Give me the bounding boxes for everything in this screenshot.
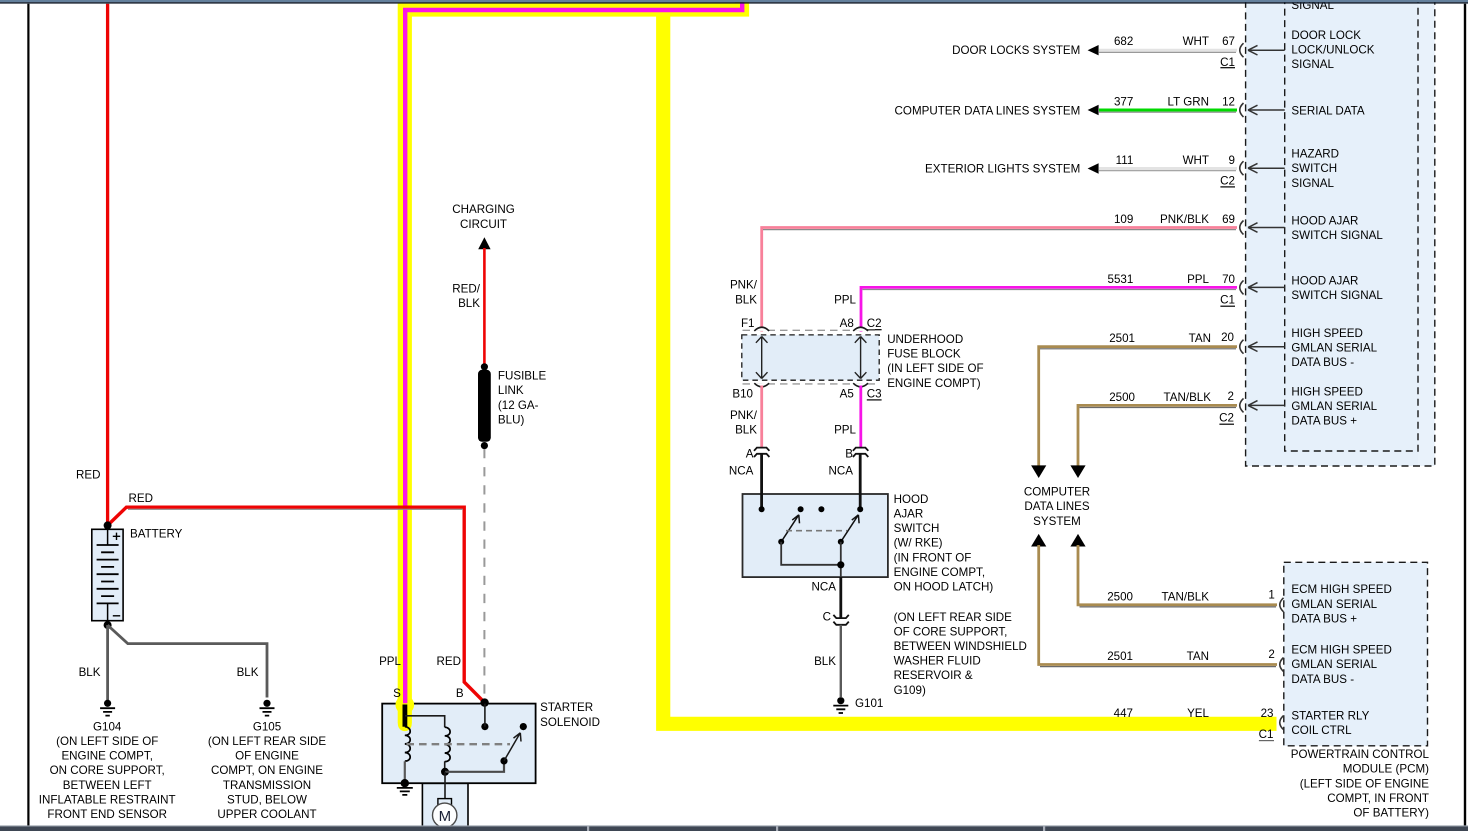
hood switch contact dot A xyxy=(759,506,765,512)
svg-text:WHT: WHT xyxy=(1183,154,1209,167)
svg-text:COIL CTRL: COIL CTRL xyxy=(1291,724,1352,737)
label CHARGING CIRCUIT xyxy=(452,203,514,231)
wire 2500 shadow xyxy=(1080,407,1237,409)
svg-text:(W/ RKE): (W/ RKE) xyxy=(894,537,943,550)
wire TAN/BLK 2500 from pin 2 down xyxy=(1078,405,1237,474)
svg-text:M: M xyxy=(439,808,452,825)
svg-text:HIGH SPEED: HIGH SPEED xyxy=(1291,327,1363,340)
svg-text:COMPUTER DATA LINES SYSTEM: COMPUTER DATA LINES SYSTEM xyxy=(895,104,1081,117)
svg-text:G105: G105 xyxy=(253,720,281,733)
note G104 location xyxy=(39,735,176,821)
svg-text:SYSTEM: SYSTEM xyxy=(1033,515,1081,528)
wire 2501 shadow xyxy=(1040,348,1236,350)
ground G105 xyxy=(260,700,275,716)
svg-text:NCA: NCA xyxy=(729,464,754,477)
svg-text:LOCK/UNLOCK: LOCK/UNLOCK xyxy=(1291,44,1374,57)
label POWERTRAIN CONTROL MODULE (PCM) caption xyxy=(1291,748,1430,819)
svg-text:ECM HIGH SPEED: ECM HIGH SPEED xyxy=(1291,583,1392,596)
node fusible link bottom xyxy=(481,442,488,449)
svg-text:SWITCH: SWITCH xyxy=(894,522,940,535)
ground G104 xyxy=(100,700,115,716)
fuse block connector C3 dashed face xyxy=(743,383,879,385)
wire LT GRN 377 serial data xyxy=(1099,109,1237,112)
wire RED vertical from top to battery positive xyxy=(106,4,109,526)
fuse block internal arrow F1-B10 xyxy=(756,337,768,379)
wire TAN 2501 from pin 20 down xyxy=(1039,347,1237,474)
frame top bar dark edge xyxy=(0,2,1468,3)
svg-text:BLK: BLK xyxy=(79,666,101,679)
PCM dashed border xyxy=(1284,562,1428,746)
svg-text:C1: C1 xyxy=(1259,728,1274,741)
svg-text:682: 682 xyxy=(1114,35,1133,48)
frame bottom bar divider 2 xyxy=(776,827,778,831)
svg-text:YEL: YEL xyxy=(1187,707,1209,720)
hood switch right arm xyxy=(841,515,859,542)
svg-text:BETWEEN WINDSHIELD: BETWEEN WINDSHIELD xyxy=(894,640,1027,653)
svg-text:20: 20 xyxy=(1221,331,1234,344)
BCM module fill (top right) xyxy=(1246,0,1418,466)
svg-text:DATA BUS +: DATA BUS + xyxy=(1291,612,1357,625)
battery bottom terminal stub xyxy=(107,603,109,620)
svg-text:C2: C2 xyxy=(1219,412,1234,425)
label HIGH SPEED GMLAN SERIAL DATA BUS - xyxy=(1291,327,1377,369)
svg-text:FUSE BLOCK: FUSE BLOCK xyxy=(887,348,961,361)
svg-text:UNDERHOOD: UNDERHOOD xyxy=(887,333,963,346)
node hood switch output xyxy=(837,561,844,568)
magenta highlight: PPL wire from ignition switch (off page) to solenoid S xyxy=(405,0,742,703)
svg-text:POWERTRAIN CONTROL: POWERTRAIN CONTROL xyxy=(1291,748,1430,761)
solenoid B contact xyxy=(481,723,488,730)
label RED/ BLK xyxy=(452,282,480,310)
connector B symbol xyxy=(853,448,868,457)
svg-text:C3: C3 xyxy=(867,387,882,400)
wire 377 shadow xyxy=(1099,111,1236,113)
svg-text:ON HOOD LATCH): ON HOOD LATCH) xyxy=(894,581,994,594)
label UNDERHOOD FUSE BLOCK note xyxy=(887,333,983,390)
solenoid hold-in coil xyxy=(445,727,450,761)
svg-text:PNK/: PNK/ xyxy=(730,279,758,292)
label PNK/ BLK left of F1 xyxy=(730,279,758,307)
wire 2501 lower shadow xyxy=(1040,666,1276,668)
arrow to door locks system xyxy=(1088,45,1099,55)
node B terminal xyxy=(480,698,488,706)
node fusible link top xyxy=(481,363,488,370)
solenoid pull-in coil xyxy=(405,727,410,761)
svg-text:C1: C1 xyxy=(1220,56,1235,69)
svg-text:TAN/BLK: TAN/BLK xyxy=(1164,391,1212,404)
hood switch left pivot xyxy=(778,539,784,545)
svg-text:OF BATTERY): OF BATTERY) xyxy=(1353,807,1429,820)
hood switch contact dot 2 xyxy=(798,506,804,512)
motor brush cap xyxy=(438,799,452,805)
svg-text:HOOD: HOOD xyxy=(894,493,929,506)
label C2 underlined pin 9 xyxy=(1220,174,1235,187)
svg-text:TAN: TAN xyxy=(1187,650,1209,663)
wire 111 shadow xyxy=(1099,170,1236,172)
solenoid internal wire S to coil 2 xyxy=(405,716,445,727)
fusible link body xyxy=(478,370,491,442)
svg-text:377: 377 xyxy=(1114,96,1133,109)
svg-text:DATA LINES: DATA LINES xyxy=(1024,500,1090,513)
svg-text:RED: RED xyxy=(437,655,461,668)
svg-text:9: 9 xyxy=(1229,154,1235,167)
BCM inner dashed border xyxy=(1285,0,1418,451)
svg-text:CHARGING: CHARGING xyxy=(452,203,514,216)
svg-text:COMPUTER: COMPUTER xyxy=(1024,486,1090,499)
wire BLK battery negative to G105 xyxy=(108,625,267,697)
svg-text:BATTERY: BATTERY xyxy=(130,528,183,541)
label C3 underlined xyxy=(867,387,882,400)
pin 69 arc xyxy=(1240,221,1244,235)
battery top terminal stub xyxy=(107,529,109,545)
wire RED/BLK fusible link to charging circuit xyxy=(483,248,486,367)
svg-text:(ON LEFT REAR SIDE: (ON LEFT REAR SIDE xyxy=(894,611,1013,624)
PCM pin 23 arc xyxy=(1280,716,1284,730)
svg-text:G109): G109) xyxy=(894,684,926,697)
wire 109 shadow xyxy=(763,229,1236,231)
svg-text:UPPER COOLANT: UPPER COOLANT xyxy=(217,808,316,821)
wire NCA A to hood switch xyxy=(760,454,763,509)
svg-text:PPL: PPL xyxy=(834,423,856,436)
pin 12 arc xyxy=(1240,103,1244,117)
svg-text:HOOD AJAR: HOOD AJAR xyxy=(1291,214,1358,227)
underhood fuse block dashed border xyxy=(742,335,879,380)
svg-text:STARTER RLY: STARTER RLY xyxy=(1291,709,1369,722)
starter motor housing xyxy=(422,783,468,826)
svg-text:RESERVOIR &: RESERVOIR & xyxy=(894,669,973,682)
svg-text:DATA BUS +: DATA BUS + xyxy=(1291,415,1357,428)
svg-text:SERIAL DATA: SERIAL DATA xyxy=(1291,104,1364,117)
svg-text:GMLAN SERIAL: GMLAN SERIAL xyxy=(1291,400,1377,413)
label ECM HIGH SPEED GMLAN SERIAL DATA BUS - xyxy=(1291,644,1392,686)
wire RED from battery positive to starter B terminal xyxy=(108,507,485,702)
wire 2500 lower shadow xyxy=(1080,606,1277,608)
wire 5531 shadow xyxy=(863,289,1237,291)
svg-text:109: 109 xyxy=(1114,213,1133,226)
svg-text:NCA: NCA xyxy=(812,580,837,593)
S terminal black bar xyxy=(403,705,408,727)
pin 9 arc xyxy=(1240,161,1244,175)
hood switch internal wires xyxy=(781,542,841,577)
battery cell plates xyxy=(97,545,119,603)
frame bottom bar divider 1 xyxy=(587,827,589,831)
svg-text:2500: 2500 xyxy=(1109,391,1135,404)
svg-text:G101: G101 xyxy=(855,697,883,710)
pin 20 arrow xyxy=(1248,342,1285,352)
node battery negative xyxy=(104,621,112,629)
wire coil 2 to node xyxy=(444,761,446,772)
svg-text:INFLATABLE RESTRAINT: INFLATABLE RESTRAINT xyxy=(39,793,176,806)
svg-text:B: B xyxy=(456,687,464,700)
frame left border line xyxy=(27,4,29,827)
pin 20 arc xyxy=(1240,340,1244,354)
svg-text:STUD, BELOW: STUD, BELOW xyxy=(227,793,307,806)
pin 12 arrow xyxy=(1248,105,1285,115)
frame bottom light edge xyxy=(0,825,1468,826)
svg-text:PNK/: PNK/ xyxy=(730,409,758,422)
svg-text:A5: A5 xyxy=(840,387,854,400)
wire 682 shadow xyxy=(1099,51,1236,53)
label C2 underlined pin 2 xyxy=(1219,412,1234,425)
battery plus sign xyxy=(113,533,120,540)
svg-text:DOOR LOCKS SYSTEM: DOOR LOCKS SYSTEM xyxy=(952,44,1080,57)
svg-text:COMPT, ON ENGINE: COMPT, ON ENGINE xyxy=(211,764,323,777)
label STARTER SOLENOID xyxy=(540,701,600,729)
svg-text:WHT: WHT xyxy=(1183,35,1209,48)
svg-text:2501: 2501 xyxy=(1109,332,1135,345)
svg-text:RED: RED xyxy=(76,469,100,482)
hood switch right pivot xyxy=(838,539,844,545)
svg-text:2: 2 xyxy=(1268,648,1274,661)
svg-text:ENGINE COMPT,: ENGINE COMPT, xyxy=(894,566,985,579)
node battery positive xyxy=(104,521,112,529)
starter solenoid box xyxy=(382,704,535,784)
svg-text:ON CORE SUPPORT,: ON CORE SUPPORT, xyxy=(50,764,165,777)
svg-text:2501: 2501 xyxy=(1107,650,1133,663)
svg-text:B: B xyxy=(845,448,853,461)
node solenoid output xyxy=(441,768,449,776)
svg-text:HAZARD: HAZARD xyxy=(1291,148,1339,161)
svg-text:TAN: TAN xyxy=(1189,332,1211,345)
svg-text:OF CORE SUPPORT,: OF CORE SUPPORT, xyxy=(894,625,1008,638)
terminal A5 arcs xyxy=(853,383,868,387)
svg-text:(IN FRONT OF: (IN FRONT OF xyxy=(894,551,972,564)
PCM pin 2 arc xyxy=(1280,658,1284,672)
label C1 pin70 underlined xyxy=(1220,294,1235,307)
label C2 fuse block underlined xyxy=(867,317,882,330)
svg-text:A8: A8 xyxy=(840,317,854,330)
hood switch left arm xyxy=(781,515,799,542)
arrow to exterior lights system xyxy=(1088,163,1099,173)
wire NCA B to hood switch xyxy=(859,454,862,509)
svg-text:69: 69 xyxy=(1222,213,1235,226)
ground G101 xyxy=(833,697,848,713)
label COMPUTER DATA LINES SYSTEM center xyxy=(1024,486,1090,528)
svg-text:BLK: BLK xyxy=(735,423,757,436)
terminal F1 arcs xyxy=(754,327,769,331)
yellow highlight: PPL wire route from top to starter solenoid S terminal xyxy=(405,0,742,724)
svg-text:70: 70 xyxy=(1222,273,1235,286)
svg-text:PNK/BLK: PNK/BLK xyxy=(1160,213,1209,226)
svg-text:1: 1 xyxy=(1268,589,1274,602)
svg-text:S: S xyxy=(393,687,401,700)
svg-text:ECM HIGH SPEED: ECM HIGH SPEED xyxy=(1291,644,1392,657)
svg-text:C: C xyxy=(823,611,831,624)
wire TAN/BLK 2500 to PCM pin 1 xyxy=(1078,545,1277,605)
solenoid ground xyxy=(397,779,413,795)
svg-text:STARTER: STARTER xyxy=(540,701,593,714)
wire PPL A5 to connector B xyxy=(859,386,862,448)
svg-text:COMPT, IN FRONT: COMPT, IN FRONT xyxy=(1327,792,1429,805)
label C1 underlined pin 23 xyxy=(1259,728,1274,741)
wire WHT 682 door lock xyxy=(1099,49,1237,52)
svg-text:G104: G104 xyxy=(93,720,122,733)
wire solenoid to motor xyxy=(444,772,446,799)
svg-text:LT GRN: LT GRN xyxy=(1168,96,1209,109)
hood switch contact dot 3 xyxy=(818,506,824,512)
svg-text:5531: 5531 xyxy=(1108,273,1134,286)
terminal A8 arcs xyxy=(853,327,868,331)
svg-text:LINK: LINK xyxy=(498,384,524,397)
pin 67 arc xyxy=(1240,43,1244,57)
frame bottom bar xyxy=(0,827,1468,831)
underhood fuse block box xyxy=(742,335,879,380)
svg-text:HIGH SPEED: HIGH SPEED xyxy=(1291,386,1363,399)
svg-text:GMLAN SERIAL: GMLAN SERIAL xyxy=(1291,598,1377,611)
svg-text:B10: B10 xyxy=(732,387,753,400)
hood ajar switch box xyxy=(743,494,888,577)
svg-text:(ON LEFT REAR SIDE: (ON LEFT REAR SIDE xyxy=(208,735,327,748)
svg-text:447: 447 xyxy=(1114,707,1133,720)
label HOOD AJAR SWITCH SIGNAL pin 69 xyxy=(1291,214,1383,242)
pin 70 arc xyxy=(1240,280,1244,294)
svg-text:A: A xyxy=(746,448,754,461)
svg-text:SIGNAL: SIGNAL xyxy=(1291,177,1334,190)
svg-text:2500: 2500 xyxy=(1107,590,1133,603)
svg-text:TRANSMISSION: TRANSMISSION xyxy=(223,779,311,792)
svg-text:SIGNAL: SIGNAL xyxy=(1291,58,1334,71)
terminal B10 arcs xyxy=(754,383,769,387)
solenoid switch pivot xyxy=(500,757,507,764)
solenoid switch arm xyxy=(504,733,521,761)
svg-text:111: 111 xyxy=(1116,154,1134,167)
svg-text:(ON LEFT SIDE OF: (ON LEFT SIDE OF xyxy=(56,735,158,748)
wire WHT 111 hazard xyxy=(1099,167,1237,170)
arrow up from data lines system (right) xyxy=(1070,534,1085,547)
starter motor circle xyxy=(433,803,457,827)
wire PPL 5531 from BCM pin 70 to fuse block A8 xyxy=(861,287,1237,331)
svg-text:PPL: PPL xyxy=(1187,273,1209,286)
note G105 location xyxy=(208,735,327,821)
wire RED shadow under horizontal run xyxy=(128,508,463,510)
wire NCA hood switch to connector C xyxy=(839,577,842,618)
svg-text:RED: RED xyxy=(129,492,153,505)
svg-text:ENGINE COMPT): ENGINE COMPT) xyxy=(887,377,981,390)
svg-text:BLK: BLK xyxy=(814,655,836,668)
svg-text:BETWEEN LEFT: BETWEEN LEFT xyxy=(63,779,152,792)
svg-text:(LEFT SIDE OF ENGINE: (LEFT SIDE OF ENGINE xyxy=(1300,777,1430,790)
svg-text:BLK: BLK xyxy=(237,666,259,679)
arrow to charging circuit xyxy=(478,237,490,249)
svg-text:PPL: PPL xyxy=(379,655,401,668)
svg-text:HOOD AJAR: HOOD AJAR xyxy=(1291,274,1358,287)
battery minus sign xyxy=(113,615,120,617)
pin 69 arrow xyxy=(1248,223,1285,233)
connector A symbol xyxy=(754,448,769,457)
svg-text:FRONT END SENSOR: FRONT END SENSOR xyxy=(47,808,167,821)
svg-text:SWITCH: SWITCH xyxy=(1291,162,1337,175)
wire node to switch pivot xyxy=(445,763,504,772)
svg-text:CIRCUIT: CIRCUIT xyxy=(460,218,507,231)
svg-text:FUSIBLE: FUSIBLE xyxy=(498,370,547,383)
label PNK/ BLK lower xyxy=(730,409,758,437)
hood switch linkage dashed xyxy=(786,530,847,532)
fuse block internal arrow A8-A5 xyxy=(855,337,867,379)
dashed wire fusible link to B node xyxy=(483,449,485,698)
BCM outer dashed border xyxy=(1246,0,1435,466)
hood switch contact dot B xyxy=(857,506,863,512)
arrow up from data lines system (left) xyxy=(1031,534,1046,547)
svg-text:F1: F1 xyxy=(741,317,755,330)
svg-text:2: 2 xyxy=(1228,390,1234,403)
wire coil 1 to ground xyxy=(404,761,406,781)
label HOOD AJAR SWITCH SIGNAL pin 70 xyxy=(1291,274,1383,302)
label C1 underlined pin 67 xyxy=(1220,56,1235,69)
note C splice location xyxy=(894,611,1027,697)
svg-text:(12 GA-: (12 GA- xyxy=(498,399,539,412)
svg-text:C2: C2 xyxy=(867,317,882,330)
PCM module fill (bottom right) xyxy=(1284,562,1428,746)
solenoid switch upper contact xyxy=(520,723,527,730)
svg-text:SOLENOID: SOLENOID xyxy=(540,716,600,729)
svg-text:BLU): BLU) xyxy=(498,414,525,427)
pin 9 arrow xyxy=(1248,163,1285,173)
svg-text:SWITCH SIGNAL: SWITCH SIGNAL xyxy=(1291,229,1383,242)
arrow to computer data lines system xyxy=(1088,105,1099,115)
svg-text:DATA BUS -: DATA BUS - xyxy=(1291,673,1354,686)
svg-text:BLK: BLK xyxy=(458,297,480,310)
svg-text:GMLAN SERIAL: GMLAN SERIAL xyxy=(1291,658,1377,671)
label FUSIBLE LINK (12 GA- BLU) xyxy=(498,370,547,427)
svg-text:GMLAN SERIAL: GMLAN SERIAL xyxy=(1291,341,1377,354)
wire B node to contact xyxy=(484,704,486,727)
label HIGH SPEED GMLAN SERIAL DATA BUS + xyxy=(1291,386,1377,428)
wire TAN 2501 to PCM pin 2 xyxy=(1039,545,1277,665)
svg-text:(IN LEFT SIDE OF: (IN LEFT SIDE OF xyxy=(887,362,983,375)
svg-text:NCA: NCA xyxy=(829,464,854,477)
frame bottom bar divider 3 xyxy=(1043,827,1045,831)
svg-text:MODULE (PCM): MODULE (PCM) xyxy=(1343,763,1429,776)
svg-text:DOOR LOCK: DOOR LOCK xyxy=(1291,29,1361,42)
svg-text:RED/: RED/ xyxy=(452,282,480,295)
label ECM HIGH SPEED GMLAN SERIAL DATA BUS + xyxy=(1291,583,1392,625)
svg-text:BLK: BLK xyxy=(735,293,757,306)
svg-text:67: 67 xyxy=(1222,35,1235,48)
label HOOD AJAR SWITCH note xyxy=(894,493,994,594)
solenoid linkage dashed line xyxy=(406,743,510,745)
fuse block connector C2 dashed face xyxy=(743,329,879,331)
yellow highlight: YEL wire 447 route from top band down and right to PCM pin 23 xyxy=(663,10,1276,724)
svg-text:DATA BUS -: DATA BUS - xyxy=(1291,356,1354,369)
frame right border line xyxy=(1464,4,1466,827)
pin 70 arrow xyxy=(1248,283,1285,293)
PCM pin 1 arc xyxy=(1280,598,1284,612)
battery body xyxy=(92,529,123,620)
wire BLK battery negative to G104 xyxy=(106,625,109,700)
connector C symbol xyxy=(833,615,848,625)
wire PNK/BLK B10 to connector A xyxy=(760,386,763,448)
label HAZARD SWITCH SIGNAL xyxy=(1291,148,1339,190)
svg-text:ENGINE COMPT,: ENGINE COMPT, xyxy=(61,750,152,763)
svg-text:SWITCH SIGNAL: SWITCH SIGNAL xyxy=(1291,289,1383,302)
svg-text:TAN/BLK: TAN/BLK xyxy=(1162,590,1210,603)
svg-text:23: 23 xyxy=(1261,707,1274,720)
label STARTER RLY COIL CTRL xyxy=(1291,709,1369,737)
label DOOR LOCK LOCK/UNLOCK SIGNAL xyxy=(1291,29,1374,71)
arrow down to data lines system (left) xyxy=(1031,465,1046,478)
pin 67 arrow xyxy=(1248,45,1285,55)
arrow down to data lines system (right) xyxy=(1070,465,1085,478)
wire BLK to G101 xyxy=(840,625,842,697)
svg-text:12: 12 xyxy=(1222,96,1235,109)
svg-text:C1: C1 xyxy=(1220,294,1235,307)
svg-text:C2: C2 xyxy=(1220,174,1235,187)
wire PNK/BLK 109 from BCM pin 69 to fuse block F1 xyxy=(762,228,1237,332)
svg-text:PPL: PPL xyxy=(834,293,856,306)
svg-text:AJAR: AJAR xyxy=(894,507,924,520)
svg-text:WASHER FLUID: WASHER FLUID xyxy=(894,655,981,668)
svg-text:EXTERIOR LIGHTS SYSTEM: EXTERIOR LIGHTS SYSTEM xyxy=(925,163,1080,176)
